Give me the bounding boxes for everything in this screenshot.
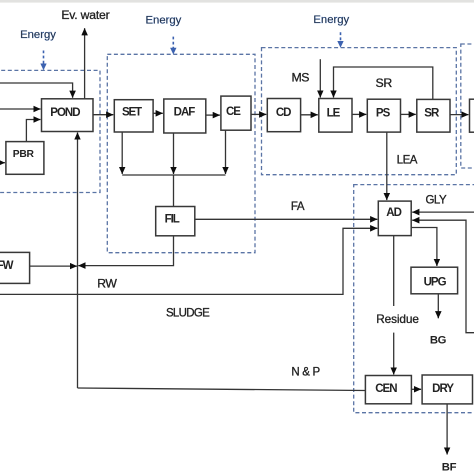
svg-text:Energy: Energy [146,14,182,26]
wire into PBR left [0,162,5,164]
svg-text:GLY: GLY [425,195,446,207]
box PS [367,99,400,132]
top grey bar [0,0,474,3]
svg-text:LE: LE [327,108,341,120]
wire into POND left from left [0,108,41,110]
box at right edge (cut) [470,99,474,132]
svg-text:PBR: PBR [13,149,35,160]
wire MS into LE top [319,59,321,97]
dashed energy boundary 4 (right, cut off) [461,44,474,168]
svg-text:MS: MS [291,70,309,84]
wire AD to UPG [411,228,437,267]
wire CE underflow down [225,130,227,174]
wire SR recycle to LE top [334,67,433,99]
wire GLY into AD right [412,211,474,213]
svg-text:Energy: Energy [313,14,349,26]
svg-text:CD: CD [276,107,291,119]
box CD [267,99,300,132]
wire LEA from PS to AD [386,132,388,200]
wire UPG to BG [437,294,439,319]
box POND [42,99,94,132]
wire FIL bottom to RW junction [78,236,173,266]
svg-text:SR: SR [376,76,393,90]
box SR [417,99,450,132]
wire return into AD right (from image edge) [412,220,474,333]
wire PS to SR [401,113,416,115]
svg-text:AD: AD [386,207,401,219]
svg-text:SET: SET [122,106,142,118]
svg-text:SR: SR [424,108,440,120]
wire DRY to BF [446,404,448,455]
Energy arrow 2 [172,37,174,48]
box DRY [422,375,472,404]
wire DAF underflow down [173,133,175,174]
box FW (cut at left edge) [0,252,30,283]
wire evaporated water up from POND [84,28,86,99]
svg-text:BF: BF [442,461,457,473]
svg-text:POND: POND [50,107,80,119]
wire collector line [122,174,225,176]
box SET [114,100,153,132]
box FIL [156,207,195,236]
box CE [221,96,251,130]
svg-text:PS: PS [376,108,391,120]
svg-text:RW: RW [97,277,117,291]
wire FW box to junction [30,265,77,267]
dashed energy boundary 1 (pond section) [0,70,100,192]
wire LE to PS [352,113,366,115]
wire collector to FIL [173,175,175,207]
wire CE to CD [251,113,266,115]
dashed boundary 5 (AD/biogas section, cut off right) [354,185,474,413]
box LE [319,99,352,133]
dashed energy boundary 3 (extraction section) [262,48,457,175]
wire PBR to POND [26,120,40,142]
wire Residue lower segment into CEN [393,333,395,375]
box CEN [365,376,411,404]
wire SR to next (cut) [450,114,469,116]
wire SET underflow down [121,132,123,174]
svg-text:DAF: DAF [174,107,196,119]
wire DAF to CE [206,114,220,116]
wire N and P line to CEN [78,388,366,391]
svg-text:N & P: N & P [291,367,320,379]
box DAF [164,99,206,133]
svg-text:Residue: Residue [376,312,419,326]
Energy arrow 3 [340,32,342,42]
wire CEN to DRY [411,388,421,390]
svg-text:FA: FA [291,201,305,213]
wire SET to DAF [153,112,163,114]
wire into POND top from left [0,83,73,98]
wire POND to SET [93,114,113,116]
svg-text:LEA: LEA [397,154,418,166]
wire junction riser up into POND bottom [77,133,79,389]
svg-text:FW: FW [0,260,14,272]
svg-text:Energy: Energy [20,29,56,41]
Energy arrow 1 [43,51,45,64]
box PBR [6,142,44,175]
svg-text:DRY: DRY [432,383,454,395]
wire Residue upper segment [393,236,395,306]
dashed energy boundary 2 (harvest section) [107,54,255,252]
svg-text:Ev. water: Ev. water [61,8,109,22]
wire CD to LE [301,114,318,116]
box AD [378,201,411,236]
svg-text:UPG: UPG [424,276,447,288]
svg-text:SLUDGE: SLUDGE [166,308,210,320]
wire SLUDGE line into AD [0,228,377,294]
svg-text:BG: BG [430,334,447,346]
svg-text:CEN: CEN [375,383,397,395]
svg-text:FIL: FIL [165,214,180,226]
box UPG [411,267,458,294]
wire FA from FIL to AD [195,218,377,220]
svg-text:CE: CE [226,106,241,118]
